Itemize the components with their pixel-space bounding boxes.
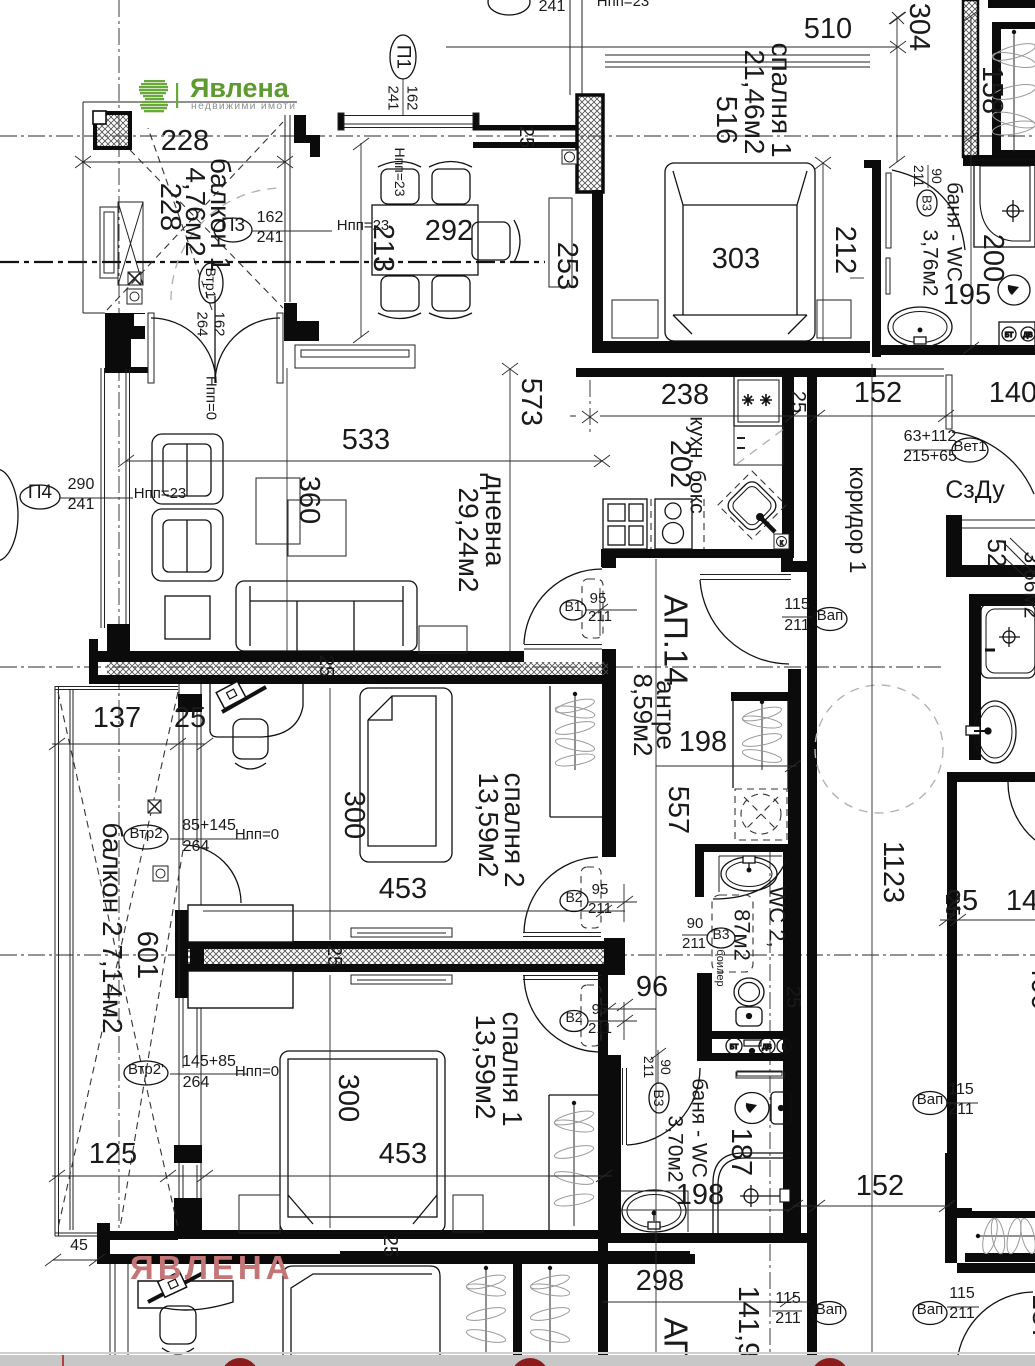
extension line x330 (300 beds) bbox=[329, 688, 331, 1228]
bedroom1 south wall bbox=[592, 341, 870, 353]
axis stub marks bbox=[582, 411, 598, 423]
dim text 198 antre bbox=[679, 726, 727, 758]
svg-text:238: 238 bbox=[661, 379, 709, 411]
mirror cabinet SzDu bbox=[946, 515, 1035, 577]
axis line horizontal B (top) bbox=[0, 135, 1035, 137]
svg-text:145+85: 145+85 bbox=[182, 1053, 236, 1070]
dim text 140 bbox=[989, 377, 1035, 409]
dim text 200 bbox=[977, 234, 1009, 282]
bubble Vap right-mid bbox=[913, 1081, 978, 1118]
bedrooms west wall thin faces bbox=[179, 684, 201, 1230]
side table square bbox=[165, 596, 210, 639]
living room west window bbox=[101, 368, 130, 628]
svg-text:25: 25 bbox=[174, 702, 206, 734]
svg-text:Вап: Вап bbox=[917, 1091, 943, 1108]
bedroom1 east wall bbox=[598, 970, 608, 1243]
dim text 152 lower bbox=[856, 1170, 904, 1202]
svg-text:187: 187 bbox=[725, 1128, 757, 1176]
bedrooms west wall black segments bbox=[174, 694, 204, 1238]
wall corner top (balcony1 NE) bbox=[294, 115, 320, 157]
kitchen sink diamond dashed bbox=[718, 471, 786, 539]
small box k near wall stub bbox=[562, 150, 577, 164]
svg-text:Нпп=23: Нпп=23 bbox=[337, 217, 390, 234]
lower laptop bbox=[148, 1272, 205, 1302]
axis line horizontal E (party wall bedrooms) bbox=[0, 954, 1035, 956]
logo yavlena icon bbox=[139, 80, 168, 112]
dim line 228 bbox=[75, 156, 293, 168]
svg-text:25: 25 bbox=[787, 391, 809, 413]
label AP lower bbox=[658, 1317, 695, 1362]
svg-text:Нпп=23: Нпп=23 bbox=[392, 147, 408, 196]
extension line x897 (304) bbox=[889, 12, 905, 168]
svg-text:200: 200 bbox=[977, 234, 1009, 282]
svg-text:162: 162 bbox=[211, 311, 228, 336]
balcony 2 dashed diagonals bbox=[58, 692, 183, 1228]
svg-text:Явлена: Явлена bbox=[190, 73, 290, 103]
bath1 north wall bbox=[963, 155, 1035, 166]
label koridor bbox=[845, 467, 871, 574]
svg-text:453: 453 bbox=[379, 1138, 427, 1170]
bubble Vap bottom-right bbox=[913, 1285, 979, 1325]
svg-text:85+145: 85+145 bbox=[182, 817, 236, 834]
svg-text:533: 533 bbox=[342, 424, 390, 456]
svg-text:3,70м2: 3,70м2 bbox=[664, 1116, 687, 1183]
bubble P1 bbox=[385, 35, 421, 115]
washroom top-right walls bbox=[969, 594, 1035, 760]
label banya top bbox=[919, 182, 966, 296]
dim text 453 lower bbox=[379, 1138, 427, 1170]
bedroom1 west wall bbox=[592, 190, 603, 353]
svg-text:211: 211 bbox=[588, 608, 612, 625]
kitchen east wall bbox=[782, 369, 794, 558]
banya south wall bbox=[603, 1233, 810, 1243]
dim line 137/25 top bbox=[49, 738, 213, 750]
dim text 300 lower bbox=[332, 1074, 364, 1122]
svg-text:96: 96 bbox=[636, 971, 668, 1003]
WC shelf bbox=[737, 1071, 782, 1076]
dim line 25/14 right bbox=[939, 914, 1035, 926]
svg-text:Нпп=0: Нпп=0 bbox=[203, 376, 220, 420]
svg-text:115: 115 bbox=[775, 1290, 801, 1307]
bubble Vtr2 bbox=[124, 817, 279, 855]
lower chair bbox=[160, 1306, 196, 1354]
label SzDu bbox=[945, 476, 1005, 504]
dim text 253 bbox=[551, 242, 583, 290]
antre closet rail + leaves bbox=[760, 700, 764, 770]
svg-text:СзДу: СзДу bbox=[945, 476, 1005, 504]
svg-text:21,46м2: 21,46м2 bbox=[739, 50, 770, 155]
svg-text:В2: В2 bbox=[565, 1009, 582, 1025]
dim text 45 bbox=[70, 1237, 88, 1254]
room label bedroom2 bbox=[473, 772, 530, 887]
dining chair head bbox=[472, 220, 520, 262]
dim text 25/14 right bbox=[946, 885, 1035, 917]
party wall bedrooms: top black bbox=[179, 941, 604, 949]
boiler circles bbox=[726, 1038, 791, 1054]
svg-text:П4: П4 bbox=[28, 482, 53, 503]
coffee tables bbox=[256, 478, 346, 556]
svg-text:162: 162 bbox=[257, 209, 284, 226]
svg-text:212: 212 bbox=[829, 226, 861, 274]
bubble Vet1 bbox=[903, 428, 988, 465]
balcony small box with circle bbox=[153, 866, 168, 881]
bath1 tub bbox=[974, 160, 1035, 247]
WC door arc B3 bbox=[713, 858, 787, 899]
svg-text:к: к bbox=[780, 538, 784, 547]
svg-text:недвижими имоти: недвижими имоти bbox=[191, 100, 296, 112]
svg-text:В2: В2 bbox=[565, 889, 582, 905]
bubble B2 bottom bbox=[560, 1001, 637, 1040]
svg-text:25: 25 bbox=[515, 126, 537, 148]
svg-text:3,66м2: 3,66м2 bbox=[1020, 552, 1035, 619]
door bedroom2 open leaf bbox=[523, 933, 601, 937]
right apartment door arc bbox=[1008, 782, 1035, 840]
dim line 195 tick bbox=[850, 277, 864, 279]
svg-text:87м2: 87м2 bbox=[730, 909, 755, 961]
WC sink bbox=[721, 856, 777, 891]
armchair 1 bbox=[152, 434, 223, 504]
party wall top hatched (vertical) bbox=[570, 0, 603, 192]
svg-text:3,76м2: 3,76м2 bbox=[919, 230, 942, 297]
bubble P2 clipped bbox=[488, 0, 649, 15]
dim text 187 bbox=[725, 1128, 757, 1176]
svg-text:115: 115 bbox=[949, 1285, 975, 1302]
axis line vertical F (bottom left rooms) bbox=[602, 1243, 604, 1366]
bottom wall outer leaf bbox=[104, 1254, 695, 1264]
svg-text:В1: В1 bbox=[564, 598, 581, 614]
door bedroom1 open leaf bbox=[523, 976, 601, 980]
living south wall hatch band bbox=[98, 662, 610, 684]
svg-text:ЯВЛЕНА: ЯВЛЕНА bbox=[130, 1249, 294, 1286]
right lower corner arc bbox=[957, 1292, 1033, 1362]
wardrobe NE rail + leaves bbox=[1012, 30, 1016, 152]
bubble B3 wc bbox=[682, 915, 735, 952]
dim line 298 bbox=[603, 1301, 810, 1303]
svg-text:152: 152 bbox=[854, 377, 902, 409]
svg-text:14: 14 bbox=[1006, 885, 1035, 917]
svg-text:198: 198 bbox=[679, 726, 727, 758]
svg-text:52: 52 bbox=[982, 539, 1012, 568]
door bedroom1 arc bbox=[524, 975, 598, 1052]
door arc Vet1 bbox=[952, 432, 1034, 494]
svg-text:Нпп=23: Нпп=23 bbox=[134, 485, 187, 502]
svg-text:25: 25 bbox=[323, 945, 345, 967]
room label balcony2 bbox=[97, 822, 128, 1033]
label WC bbox=[730, 886, 790, 960]
svg-text:115: 115 bbox=[948, 1081, 974, 1098]
extension line x872 (1123) bbox=[871, 364, 873, 1352]
svg-text:1123: 1123 bbox=[877, 841, 909, 903]
svg-text:В3: В3 bbox=[651, 1089, 667, 1106]
svg-text:115: 115 bbox=[784, 596, 810, 613]
svg-text:211: 211 bbox=[682, 935, 706, 952]
kitchen north wall bbox=[576, 368, 876, 377]
dim text 141,97 bbox=[732, 1286, 764, 1366]
dim line 96 bbox=[600, 999, 656, 1015]
dim text 198 banya bbox=[676, 1179, 724, 1211]
door bedroom2 dashed leaf bbox=[581, 867, 601, 928]
label 66m2 clipped bbox=[1020, 552, 1035, 619]
dining chairs top bbox=[378, 162, 472, 205]
svg-text:241: 241 bbox=[68, 496, 95, 513]
bath1 boiler boxes bbox=[999, 322, 1035, 347]
nightstands bedroom1 bbox=[612, 300, 851, 338]
extension line x361 (213) bbox=[353, 138, 369, 343]
axis line vertical G (bath column) bbox=[769, 852, 771, 1366]
svg-text:198: 198 bbox=[676, 1179, 724, 1211]
svg-text:137: 137 bbox=[93, 702, 141, 734]
wall shelf bar bedroom2 bbox=[351, 928, 452, 937]
axis line vertical A (balcony 1 / windows column) bbox=[118, 0, 120, 1240]
svg-text:90: 90 bbox=[687, 915, 704, 932]
bedside shelf bedroom2 left bbox=[188, 905, 293, 942]
washroom tub right bbox=[981, 604, 1035, 678]
svg-text:211: 211 bbox=[784, 617, 810, 634]
svg-text:13,59м2: 13,59м2 bbox=[473, 773, 504, 878]
svg-text:573: 573 bbox=[515, 378, 547, 426]
svg-text:Вап: Вап bbox=[816, 1301, 842, 1318]
svg-text:13,59м2: 13,59м2 bbox=[470, 1015, 501, 1120]
dim line 533 bbox=[118, 455, 610, 467]
svg-text:241: 241 bbox=[539, 0, 566, 15]
party wall NE hatched (vertical) bbox=[963, 0, 978, 157]
dim line 152 lower bbox=[787, 1200, 955, 1212]
svg-text:453: 453 bbox=[379, 873, 427, 905]
door B1 arc bbox=[524, 569, 602, 644]
hatched shaft top-left bbox=[93, 111, 130, 148]
svg-text:264: 264 bbox=[183, 1074, 210, 1091]
living south wall top black bbox=[89, 639, 616, 684]
entry double door arcs bbox=[151, 296, 280, 383]
bath1 west wall bbox=[864, 160, 881, 357]
door bedroom1 dashed leaf bbox=[581, 985, 601, 1046]
axis line horizontal D (living room south wall) bbox=[0, 666, 944, 668]
room label bedroom1-lower bbox=[470, 1011, 528, 1126]
svg-text:253: 253 bbox=[551, 242, 583, 290]
dim text 125 bbox=[89, 1138, 137, 1170]
dim text 360 bbox=[293, 476, 325, 524]
kitchen sink bbox=[724, 478, 779, 533]
dim text 213 bbox=[367, 224, 399, 272]
dim line 238/152/140 bbox=[570, 410, 1035, 422]
party wall west blob bbox=[175, 910, 188, 998]
svg-text:90: 90 bbox=[929, 168, 945, 184]
svg-text:Вап: Вап bbox=[817, 607, 843, 624]
party wall bedrooms: bottom black bbox=[179, 964, 604, 972]
svg-text:Нпп=0: Нпп=0 bbox=[235, 826, 279, 843]
svg-text:158: 158 bbox=[976, 66, 1008, 114]
TV shelf bbox=[295, 345, 415, 368]
svg-text:8,59м2: 8,59м2 bbox=[628, 674, 658, 757]
kitchen small box k bbox=[774, 534, 789, 549]
antre west wall segments bbox=[602, 549, 616, 857]
svg-text:95: 95 bbox=[590, 590, 607, 607]
svg-text:510: 510 bbox=[804, 13, 852, 45]
door banya leaf bbox=[623, 1068, 627, 1145]
svg-text:боилер: боилер bbox=[714, 949, 726, 986]
svg-text:25: 25 bbox=[379, 1235, 401, 1257]
bedside shelf bedroom1 left bbox=[188, 971, 293, 1008]
svg-text:360: 360 bbox=[293, 476, 325, 524]
fridge snowflakes bbox=[742, 394, 772, 406]
svg-text:241: 241 bbox=[385, 85, 402, 110]
bubble Vap bottom-left bbox=[772, 1290, 846, 1327]
dim line 510 bbox=[446, 41, 906, 53]
kitchen divider dashed bbox=[650, 499, 652, 549]
dim line 453 bedroom2 bbox=[203, 896, 633, 917]
antre closet walls bbox=[731, 692, 788, 789]
svg-text:25: 25 bbox=[315, 655, 337, 677]
svg-text:211: 211 bbox=[588, 900, 612, 917]
wardrobe bedroom2 bbox=[550, 686, 602, 817]
kitchen fridge bbox=[734, 376, 783, 426]
banya sink bbox=[622, 1190, 686, 1232]
desk bedroom2 bbox=[210, 684, 303, 737]
wardrobe bedroom1-lower leaves bbox=[553, 1108, 594, 1208]
room label bedroom1 bbox=[739, 42, 797, 157]
dining chairs bottom bbox=[378, 276, 472, 319]
lower apartment walls bbox=[340, 1243, 690, 1355]
lower bed bbox=[283, 1266, 440, 1360]
balcony2 door Vtr2 arc bbox=[183, 845, 241, 903]
logo divider bbox=[176, 83, 178, 108]
logo text bbox=[190, 73, 296, 112]
svg-text:162: 162 bbox=[404, 85, 421, 110]
extension line x971 (158/200) bbox=[963, 10, 979, 354]
svg-text:95: 95 bbox=[592, 1001, 609, 1018]
svg-text:211: 211 bbox=[949, 1305, 975, 1322]
dim text 212 bbox=[829, 226, 861, 274]
room label balcony1 bbox=[154, 158, 236, 272]
bubble Vtr2' bbox=[124, 1053, 279, 1091]
bottom wall inner leaf bbox=[174, 1230, 610, 1239]
WC west wall lower bbox=[697, 973, 712, 1061]
svg-text:Втр1: Втр1 bbox=[203, 268, 219, 299]
small utility box with X bbox=[128, 272, 141, 285]
svg-text:264: 264 bbox=[194, 311, 211, 336]
dim text 400 clipped bbox=[1025, 962, 1035, 1010]
extension line x823 (212) bbox=[815, 157, 831, 341]
kitchen counter below fridge bbox=[734, 426, 783, 465]
entry door jambs bbox=[148, 313, 283, 383]
WC west wall upper bbox=[695, 844, 704, 897]
svg-text:557: 557 bbox=[662, 786, 694, 834]
svg-text:211: 211 bbox=[588, 1020, 612, 1037]
bath1 toilet bbox=[998, 275, 1030, 305]
corridor east wall bbox=[947, 772, 1035, 1153]
label banya bottom bbox=[664, 1078, 711, 1182]
door B1 open leaf bbox=[524, 645, 602, 650]
kitchen divider dashed 2 bbox=[703, 499, 705, 549]
radiator shelf 253 bbox=[549, 198, 572, 287]
banya toilet bbox=[735, 1092, 791, 1124]
svg-text:95: 95 bbox=[592, 881, 609, 898]
wardrobe NE walls bbox=[988, 0, 1035, 158]
axis tick star top right bbox=[890, 12, 906, 24]
bubble B3 bath1 bbox=[911, 165, 945, 216]
kitchen counter dashed diagonal bbox=[737, 428, 785, 464]
dim text 292 bbox=[425, 215, 473, 247]
dim text 557 bbox=[662, 786, 694, 834]
dim text 304 bbox=[903, 3, 935, 51]
banya west wall bbox=[605, 1055, 621, 1236]
dim text 303 bbox=[712, 243, 760, 275]
extension line x656 bbox=[655, 559, 657, 1352]
dining table bbox=[372, 205, 478, 275]
svg-text:516: 516 bbox=[710, 96, 742, 144]
label Npp=23 window bbox=[392, 147, 408, 196]
washing machine dashed bbox=[735, 789, 787, 840]
svg-text:29,24м2: 29,24м2 bbox=[453, 488, 484, 593]
svg-text:601: 601 bbox=[131, 931, 163, 979]
extension line x510 (573) bbox=[502, 363, 518, 651]
dim line 198 banya bbox=[621, 1209, 790, 1211]
bubble P4 bbox=[20, 476, 186, 513]
svg-text:баня - WC: баня - WC bbox=[688, 1078, 711, 1178]
dim line 45 bbox=[45, 1254, 105, 1266]
svg-text:БТ: БТ bbox=[1005, 332, 1014, 339]
svg-text:300: 300 bbox=[332, 1074, 364, 1122]
corridor top opening lines + door leaf Vet1 bbox=[875, 369, 952, 429]
bath1 door arc bbox=[892, 170, 965, 250]
svg-text:195: 195 bbox=[943, 279, 991, 311]
WC west outer wall bbox=[788, 669, 801, 845]
dim text 137/25 bbox=[93, 702, 206, 734]
svg-text:211: 211 bbox=[641, 1056, 657, 1079]
bubble Vtr1 bbox=[194, 263, 228, 420]
shaft window left (living room, narrow rect) bbox=[100, 207, 118, 278]
banya counter bbox=[621, 1191, 688, 1232]
WC north wall bbox=[695, 844, 800, 852]
svg-text:45: 45 bbox=[70, 1237, 88, 1254]
svg-text:баня - WC: баня - WC bbox=[943, 182, 966, 282]
dim text 158 bbox=[976, 66, 1008, 114]
svg-text:25: 25 bbox=[782, 986, 804, 1008]
dim text 1123 bbox=[877, 841, 909, 903]
dim text 300 bedroom2 bbox=[338, 791, 370, 839]
svg-text:211: 211 bbox=[775, 1310, 801, 1327]
kitchen cabinet 4-square bbox=[603, 499, 647, 549]
svg-text:228: 228 bbox=[154, 183, 186, 231]
balcony 2 railing bbox=[55, 686, 178, 1236]
svg-text:215+65: 215+65 bbox=[903, 448, 957, 465]
dim text 195 bbox=[943, 279, 991, 311]
bubble P3 bbox=[214, 209, 389, 246]
svg-text:264: 264 bbox=[183, 838, 210, 855]
balcony 1 dashed diagonals bbox=[107, 122, 283, 310]
watermark red bbox=[130, 1249, 294, 1286]
svg-text:Втр2': Втр2' bbox=[128, 1061, 164, 1078]
entry wall right corner bbox=[284, 303, 319, 341]
svg-text:298: 298 bbox=[636, 1265, 684, 1297]
armchair 2 bbox=[152, 509, 223, 581]
dim text 510 bbox=[804, 13, 852, 45]
dim line 125/453 lower bbox=[49, 1170, 612, 1182]
svg-text:211: 211 bbox=[911, 165, 927, 188]
bubble B1 bbox=[560, 588, 637, 636]
svg-text:187: 187 bbox=[1026, 1294, 1035, 1342]
chair bedroom2 bbox=[233, 719, 268, 769]
wardrobe right-lower rail + leaves bbox=[976, 1234, 1035, 1238]
svg-text:140: 140 bbox=[989, 377, 1035, 409]
bath1 door leaf bbox=[886, 173, 891, 294]
balcony small box with X bbox=[148, 800, 161, 813]
bedroom1 north window bbox=[605, 55, 870, 67]
bubble B3 banya bbox=[641, 1048, 674, 1113]
lower desk bbox=[138, 1281, 233, 1310]
bed bedroom2 bbox=[360, 688, 452, 862]
dim text 96 bbox=[636, 971, 668, 1003]
